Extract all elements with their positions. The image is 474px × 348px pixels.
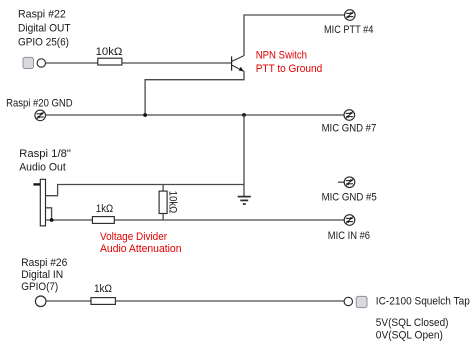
wire jack tip to MIC IN bbox=[46, 219, 345, 221]
svg-text:Digital IN: Digital IN bbox=[21, 269, 63, 281]
svg-text:5V(SQL Closed): 5V(SQL Closed) bbox=[376, 317, 449, 329]
label Raspi #26 Digital IN GPIO(7) bbox=[21, 257, 67, 293]
wire GPIO7 to R4 bbox=[46, 300, 91, 302]
resistor R4 1k body bbox=[91, 298, 115, 305]
svg-text:Raspi #22: Raspi #22 bbox=[18, 9, 66, 21]
svg-text:MIC PTT #4: MIC PTT #4 bbox=[324, 24, 373, 36]
resistor R2 1k body bbox=[92, 217, 114, 224]
label Raspi #22 Digital OUT GPIO 25(6) bbox=[18, 9, 71, 49]
label NPN Switch / PTT to Ground bbox=[256, 50, 323, 75]
svg-text:MIC GND #5: MIC GND #5 bbox=[322, 191, 377, 203]
label Raspi 1/8 Audio Out bbox=[19, 148, 71, 173]
svg-text:NPN Switch: NPN Switch bbox=[256, 50, 307, 62]
svg-text:Raspi #20 GND: Raspi #20 GND bbox=[6, 98, 73, 110]
wire GPIO25 to R1 bbox=[46, 62, 98, 64]
terminal MIC PTT #4 bbox=[345, 10, 356, 21]
svg-text:Raspi #26: Raspi #26 bbox=[21, 257, 67, 269]
transistor Q1 NPN bbox=[232, 55, 245, 71]
svg-text:MIC GND #7: MIC GND #7 bbox=[322, 122, 377, 134]
svg-text:GPIO(7): GPIO(7) bbox=[21, 281, 58, 293]
svg-text:0V(SQL Open): 0V(SQL Open) bbox=[376, 329, 443, 341]
terminal MIC GND #5 bbox=[344, 177, 355, 188]
terminal GPIO7 circle bbox=[35, 296, 46, 307]
terminal MIC GND #7 bbox=[344, 110, 355, 121]
ground symbol bbox=[238, 197, 251, 204]
svg-text:GPIO 25(6): GPIO 25(6) bbox=[18, 36, 69, 48]
wire jack sleeve to ground rail bbox=[46, 185, 245, 196]
wire GND rail bbox=[46, 114, 345, 116]
resistor R1 10k body bbox=[98, 58, 122, 65]
terminal MIC IN #6 bbox=[344, 215, 355, 226]
svg-text:MIC IN #6: MIC IN #6 bbox=[328, 230, 370, 242]
junction ring/tip bbox=[50, 218, 54, 222]
wire Q1 collector up and right to MIC PTT bbox=[244, 15, 344, 55]
svg-text:Voltage Divider: Voltage Divider bbox=[100, 231, 167, 243]
junction GND rail / emitter bbox=[143, 113, 147, 117]
label 5V / 0V squelch states bbox=[376, 317, 449, 341]
svg-text:1kΩ: 1kΩ bbox=[96, 203, 113, 215]
terminal squelch circle bbox=[344, 297, 352, 305]
wire R1 to Q1 base bbox=[122, 62, 232, 64]
svg-text:Audio Attenuation: Audio Attenuation bbox=[100, 243, 182, 255]
terminal Raspi GND screw bbox=[35, 110, 46, 121]
pad squelch square bbox=[356, 296, 367, 307]
wire MIC GND #5 stub bbox=[338, 181, 344, 183]
label Voltage Divider / Audio Attenuation bbox=[100, 231, 182, 255]
pad GPIO25 square bbox=[23, 57, 34, 68]
svg-text:IC-2100 Squelch Tap: IC-2100 Squelch Tap bbox=[376, 296, 470, 308]
svg-text:Raspi 1/8": Raspi 1/8" bbox=[19, 148, 71, 160]
junction GND rail / ground drop bbox=[242, 113, 246, 117]
svg-text:Digital OUT: Digital OUT bbox=[18, 23, 71, 35]
svg-text:10kΩ: 10kΩ bbox=[96, 46, 123, 58]
svg-text:Audio Out: Audio Out bbox=[19, 162, 66, 174]
terminal GPIO25 circle bbox=[37, 59, 45, 67]
svg-text:PTT to Ground: PTT to Ground bbox=[256, 63, 323, 75]
resistor R3 10k vertical bbox=[159, 185, 167, 221]
wire Q1 emitter down-left to GND rail bbox=[145, 71, 244, 115]
svg-text:10kΩ: 10kΩ bbox=[166, 191, 178, 213]
wire R4 to squelch tap bbox=[115, 300, 344, 302]
wire jack ring stub bbox=[46, 208, 52, 220]
connector J1 audio jack plug bbox=[33, 179, 45, 226]
wire ground drop vertical bbox=[243, 115, 245, 197]
svg-text:1kΩ: 1kΩ bbox=[94, 283, 112, 295]
